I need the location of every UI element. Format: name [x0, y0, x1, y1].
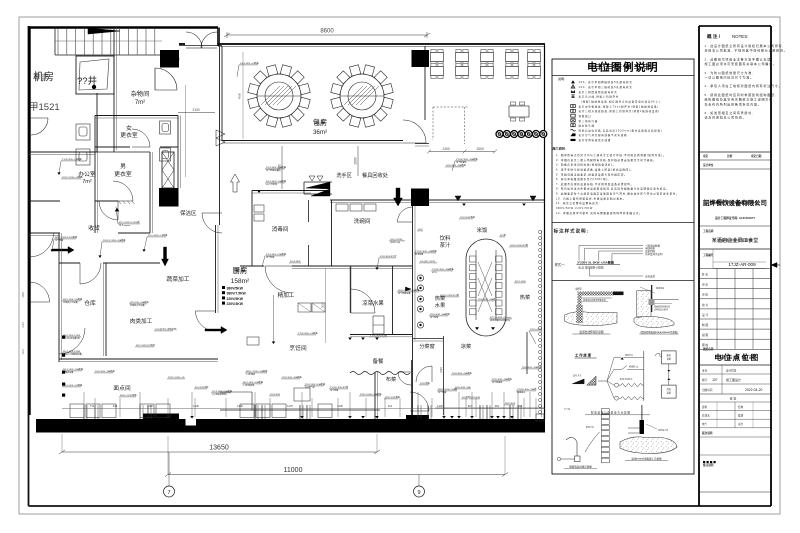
svg-text:(预留1轴线栈设备,相应器件点位设备需电位核实86上): (预留1轴线栈设备,相应器件点位设备需电位核实86上) [581, 99, 660, 103]
door arc 包房 [403, 120, 426, 143]
entrance double door [186, 32, 202, 48]
door arc 机房 [31, 118, 48, 135]
legend section divider 2 [552, 280, 694, 282]
svg-text:底部出线预埋示意图: 底部出线预埋示意图 [579, 330, 603, 334]
hollow arrow up [231, 174, 240, 192]
band raised block B [406, 415, 429, 420]
leader line x273 [273, 295, 275, 342]
svg-text:8600: 8600 [320, 29, 334, 35]
annotation cluster [439, 293, 459, 297]
svg-text:9. 此图要求每个功能区电器另设备用电空气开关,图中共分区气: 9. 此图要求每个功能区电器另设备用电空气开关,图中共分区气开关以管区更多参考。 [556, 192, 679, 196]
axis bubble 7 [168, 452, 170, 486]
svg-text:6. 如发现相互之间有矛盾处,: 6. 如发现相互之间有矛盾处, [705, 110, 754, 115]
svg-text:餐具回收处: 餐具回收处 [362, 171, 388, 179]
dimension 3000 vertical [281, 146, 283, 189]
annotation cluster [129, 300, 149, 307]
annotation cluster [509, 243, 528, 247]
svg-text:4. 承包人须在工地核对图纸内所有标注尺寸。: 4. 承包人须在工地核对图纸内所有标注尺寸。 [705, 83, 783, 88]
svg-text:表示常用电线需走线槽: 表示常用电线需走线槽 [579, 138, 612, 142]
legend symbol row [571, 129, 576, 131]
equipment rect 凉菜水果 [373, 316, 384, 334]
dashed L dining [432, 107, 434, 140]
annotation cluster [211, 389, 233, 396]
svg-text:2100: 2100 [192, 108, 199, 112]
legend symbol row [571, 119, 575, 122]
wall 消毒间 south y266 [240, 265, 264, 267]
annotation cluster [529, 329, 542, 344]
dining table A1 [431, 49, 444, 64]
svg-text:施工说明:: 施工说明: [553, 146, 566, 151]
annotation cluster [414, 249, 437, 256]
svg-text:消毒间: 消毒间 [272, 225, 289, 233]
wall 凉菜水果 west x350 [350, 266, 352, 313]
stair hatch [88, 28, 120, 34]
svg-text:4. 现于布防与标准要求做,设备上所架(标高设施回)。: 4. 现于布防与标准要求做,设备上所架(标高设施回)。 [556, 167, 634, 171]
annotation cluster [265, 179, 287, 186]
annotation cluster [431, 267, 454, 274]
dining table B2 [456, 63, 469, 78]
dining table A5 [528, 49, 541, 64]
svg-text:烹饪间: 烹饪间 [289, 344, 307, 352]
svg-text:380V/5KW 220V/5KW: 380V/5KW 220V/5KW [556, 206, 593, 210]
leader triangles mid [348, 337, 352, 340]
door arc west wall lower [30, 282, 50, 302]
wall 仓库 [59, 262, 80, 264]
band raised block A [143, 414, 179, 420]
wall east service x413 [412, 206, 414, 415]
svg-text:肉类加工: 肉类加工 [130, 317, 153, 325]
legend symbol row [571, 105, 576, 108]
duct shaft with X bracing [162, 152, 174, 188]
svg-text:机房: 机房 [33, 70, 54, 83]
door arc west wall 收货 [30, 233, 54, 257]
svg-text:图纸名称: 图纸名称 [703, 347, 714, 351]
svg-text:1. 此设计图纸之所有设计版权归属本公司所有,: 1. 此设计图纸之所有设计版权归属本公司所有, [705, 43, 785, 48]
dashed partition dining [432, 107, 434, 140]
svg-text:建筑: 建筑 [702, 405, 708, 409]
annotation cluster [62, 297, 83, 304]
round table 1 with 12 chairs [248, 65, 310, 127]
column top-right [412, 50, 430, 67]
dining table B5 [528, 63, 541, 78]
dimension 8600 top [227, 34, 427, 36]
wall 消毒间 west [251, 191, 253, 267]
svg-text:11. 标注点位置布设置标高为:: 11. 标注点位置布设置标高为: [556, 201, 600, 205]
dashed partition x464 [464, 107, 466, 144]
axis bubble 9 [418, 475, 420, 487]
svg-text:备注说明: 备注说明 [702, 463, 714, 467]
annotation cluster [489, 317, 512, 322]
extra leader verticals [94, 398, 96, 417]
svg-text:洗手区: 洗手区 [336, 171, 352, 179]
annotation cluster [62, 335, 81, 340]
counter L 烹饪间 [220, 391, 252, 393]
svg-text:男: 男 [120, 163, 126, 170]
legend symbol row [571, 97, 575, 99]
svg-text:2140: 2140 [22, 322, 25, 328]
svg-text:杂物间: 杂物间 [131, 90, 150, 98]
svg-text:请及时通知本公司协调。: 请及时通知本公司协调。 [705, 115, 747, 120]
equipment point [62, 371, 65, 374]
svg-text:36m²: 36m² [313, 129, 327, 136]
svg-text:更衣室: 更衣室 [120, 131, 138, 139]
annotation cluster [384, 395, 401, 399]
wall 面点间 north [59, 358, 218, 360]
svg-text:面点间: 面点间 [113, 384, 131, 392]
equipment point [62, 354, 65, 357]
power note rows [222, 286, 225, 289]
dim vertical 精加工 [325, 268, 327, 343]
svg-text:结构: 结构 [738, 405, 744, 409]
svg-text:暖通: 暖通 [738, 414, 744, 418]
equipment box right [536, 414, 544, 421]
svg-text:13650: 13650 [209, 445, 229, 452]
svg-text:校 对: 校 对 [702, 303, 708, 307]
svg-text:表示中单相线盒,预留上They制开关(预留1轴线栈设备): 表示中单相线盒,预留上They制开关(预留1轴线栈设备) [579, 104, 659, 108]
annotation cluster [304, 382, 326, 389]
svg-text:工程名称: 工程名称 [703, 229, 714, 233]
annotation cluster [452, 157, 478, 171]
legend symbol row [571, 85, 575, 88]
door arc 男更衣室 [113, 181, 133, 201]
svg-text:8. 所有如何当为布置中设备用电情况,其实际布线数量与各品牌: 8. 所有如何当为布置中设备用电情况,其实际布线数量与各品牌供应商为标定。 [556, 187, 669, 191]
annotation cluster [142, 233, 168, 252]
column mid-right [411, 189, 429, 207]
svg-text:1210: 1210 [22, 349, 25, 355]
wall corridor [149, 152, 151, 233]
svg-text:1400: 1400 [237, 404, 243, 408]
svg-text:表示三相四线暗装配电开关: 表示三相四线暗装配电开关 [579, 90, 618, 94]
small arrow at 收货 [115, 208, 120, 211]
entrance sill [179, 45, 222, 47]
svg-text:12. 本图仅供学习参考,实际布置图据现场地坪样准确认定。: 12. 本图仅供学习参考,实际布置图据现场地坪样准确认定。 [556, 211, 642, 215]
legend section divider 1 [552, 222, 694, 224]
dim extension lines [61, 434, 63, 452]
svg-text:9: 9 [417, 490, 420, 496]
svg-text:设计阶段: 设计阶段 [726, 369, 737, 373]
svg-text:7: 7 [167, 490, 170, 496]
equipment point [62, 383, 65, 386]
svg-text:甲1521: 甲1521 [29, 102, 60, 113]
svg-text:2022-04-20: 2022-04-20 [745, 388, 762, 392]
svg-text:电位图例说明: 电位图例说明 [587, 61, 659, 74]
legend symbol row [571, 133, 576, 136]
dining table B1 [431, 63, 444, 78]
annotation cluster [359, 392, 382, 396]
annotation cluster [461, 395, 470, 399]
annotation cluster [242, 380, 264, 387]
svg-text:设计单位: 设计单位 [703, 163, 714, 167]
wall 凉菜水果 east x392 [392, 266, 394, 335]
schematic bus line [643, 351, 645, 401]
svg-text:17JZ-AR-009: 17JZ-AR-009 [728, 262, 756, 267]
svg-text:说明:: 说明: [558, 76, 565, 81]
door arcs 布菜 [398, 372, 411, 385]
svg-text:913: 913 [518, 404, 523, 408]
door arc 消毒间-精加工 [265, 266, 292, 293]
corridor wall x219 [219, 28, 221, 226]
annotation cluster [237, 61, 259, 77]
annotation cluster [281, 375, 303, 379]
svg-text:暗装暗埋出线предложено示意图: 暗装暗埋出线предложено示意图 [641, 330, 678, 334]
svg-text:1190: 1190 [147, 404, 153, 408]
room 包房 walls [221, 46, 223, 141]
svg-text:1500: 1500 [476, 147, 484, 151]
wall: building west [28, 27, 30, 415]
door arc 仓库 [80, 263, 101, 284]
svg-text:布菜: 布菜 [386, 375, 396, 383]
svg-text:481: 481 [495, 404, 500, 408]
sill at 包房 door end [415, 143, 429, 145]
svg-text:10. 白线上面布预留装修,生意设留来制以基本。: 10. 白线上面布预留装修,生意设留来制以基本。 [556, 196, 626, 200]
svg-text:J07: J07 [712, 378, 718, 382]
svg-text:6. 原功率电量请用于另行(50F/项)。: 6. 原功率电量请用于另行(50F/项)。 [556, 177, 611, 181]
svg-text:姓 名: 姓 名 [702, 273, 708, 277]
door arc service [398, 207, 413, 222]
svg-text:描 图: 描 图 [702, 333, 708, 337]
annotation cluster [389, 239, 405, 244]
detail D2: wall outlet embedding [634, 285, 679, 334]
annotation cluster [504, 403, 515, 405]
svg-text:工 作 原 理: 工 作 原 理 [575, 353, 592, 358]
svg-text:概 注 /: 概 注 / [707, 33, 721, 40]
annotation cluster [119, 393, 137, 397]
annotation cluster [245, 369, 268, 376]
counter 洗手区 [304, 181, 332, 183]
annotation cluster [499, 233, 506, 237]
svg-text:2. 本图仅表示三相入场配供电系统,保护线必须安装相关大尺寸: 2. 本图仅表示三相入场配供电系统,保护线必须安装相关大尺寸规格。 [556, 158, 657, 162]
detail D3: working principle schematic [572, 351, 676, 415]
annotation cluster [94, 369, 116, 373]
detail D1: floor outlet embedding [564, 287, 623, 335]
svg-text:设计工程师证号码: A131504577: 设计工程师证号码: A131504577 [715, 216, 756, 220]
svg-text:审 定: 审 定 [702, 283, 708, 287]
detail D4: wall conduit elevation [557, 407, 609, 469]
dining table C1 [509, 102, 529, 121]
svg-text:2000: 2000 [354, 157, 358, 164]
annotation cluster [469, 397, 480, 399]
svg-text:米饭: 米饭 [477, 226, 488, 234]
svg-text:会 签: 会 签 [730, 396, 737, 401]
wall: east [544, 44, 546, 420]
svg-text:电气: 电气 [702, 422, 708, 426]
annotation cluster [57, 157, 82, 175]
dashed line kitchen corridor [251, 215, 253, 268]
annotation cluster [262, 252, 287, 267]
svg-text:风机启动电控箱,安装高度1500mm(相关设备供应商提供): 风机启动电控箱,安装高度1500mm(相关设备供应商提供) [579, 128, 663, 132]
door arc storeroom SW [59, 328, 85, 354]
dimension 11000 [168, 474, 505, 476]
svg-text:图号: 图号 [702, 378, 708, 382]
svg-text:16A, 表示单相两极暗装5孔配电开关: 16A, 表示单相两极暗装5孔配电开关 [579, 80, 633, 84]
svg-text:比例: 比例 [727, 154, 733, 158]
annotation cluster [451, 371, 473, 375]
column top-left [160, 50, 179, 68]
equipment point [62, 394, 65, 397]
title block top edge [699, 25, 771, 27]
annotation cluster [98, 238, 126, 258]
svg-text:4500: 4500 [238, 92, 242, 99]
annotation cluster [369, 333, 387, 337]
svg-text:3. 隐蔽应审查自检验收(按规格要求好)。: 3. 隐蔽应审查自检验收(按规格要求好)。 [556, 163, 616, 167]
dining table B4 [506, 63, 519, 78]
annotation cluster [429, 312, 451, 319]
round table 2 with 12 chairs [331, 65, 393, 127]
svg-text:样式一:: 样式一: [555, 262, 566, 267]
detail D5: grounding construction [620, 405, 677, 461]
svg-text:2*220V 5L 5KW +20A断路: 2*220V 5L 5KW +20A断路 [577, 260, 615, 265]
svg-text:预留线口: 预留线口 [579, 114, 592, 118]
svg-text:审定日期: 审定日期 [751, 154, 762, 158]
arrow pass [205, 327, 227, 334]
dimension 2000 vertical [357, 146, 359, 176]
svg-text:11000: 11000 [284, 467, 303, 474]
svg-text:凉菜水果: 凉菜水果 [362, 299, 384, 307]
dining table A2 [456, 49, 469, 64]
svg-text:凉菜: 凉菜 [461, 342, 471, 350]
svg-text:接地extend电极施工示意图: 接地extend电极施工示意图 [631, 457, 662, 461]
stairwell [54, 27, 56, 55]
black arrow down right [394, 188, 403, 206]
svg-text:1430: 1430 [193, 404, 199, 408]
annotation cluster [419, 381, 431, 385]
black wedge sink counter [311, 189, 330, 196]
annotation cluster [265, 165, 287, 172]
wall: north left [28, 26, 218, 28]
svg-text:审 核: 审 核 [702, 293, 708, 297]
sink island 精加工 [298, 303, 311, 312]
svg-text:5. 等线范围走线要求,按要求设置专项布线区间。: 5. 等线范围走线要求,按要求设置专项布线区间。 [556, 172, 627, 176]
column (filled) [159, 188, 179, 207]
svg-text:16A, 表示单相三极暗装5孔配电开关: 16A, 表示单相三极暗装5孔配电开关 [579, 85, 633, 89]
equipment point [62, 336, 65, 339]
svg-text:711: 711 [90, 404, 95, 408]
svg-text:配 电 设 备 与 电 缆 接 合 示 意 图: 配 电 设 备 与 电 缆 接 合 示 意 图 [591, 411, 630, 415]
annotation cluster [437, 387, 457, 394]
svg-text:3181: 3181 [439, 367, 443, 373]
double tri sinks 洗碗间 [455, 196, 461, 201]
svg-text:表示空气开关配电线器平式布线箱: 表示空气开关配电线器平式布线箱 [579, 133, 628, 137]
svg-text:标注样式说明:: 标注样式说明: [553, 228, 590, 235]
svg-text:220V/5KW: 220V/5KW [227, 297, 244, 301]
annotation cluster [417, 229, 423, 231]
annotation cluster [516, 387, 536, 394]
dim 4500 vertical in 包房 [242, 52, 244, 139]
svg-text:1. 图中所标点位尺寸均与土建尺寸之进行复核,不可按比例测量: 1. 图中所标点位尺寸均与土建尺寸之进行复核,不可按比例测量(现场为准)。 [556, 153, 666, 157]
svg-text:蔬菜加工: 蔬菜加工 [166, 275, 189, 283]
shaft dot [92, 85, 96, 89]
annotation cluster [297, 331, 318, 335]
svg-text:保洁区: 保洁区 [180, 209, 197, 217]
wall 洗碗间 north [330, 199, 545, 201]
arrow receive [52, 247, 74, 254]
annotation cluster [62, 367, 84, 374]
svg-text:工程编号: 工程编号 [703, 253, 714, 257]
svg-text:440: 440 [113, 404, 118, 408]
svg-text:饮料: 饮料 [440, 234, 451, 242]
svg-text:动力: 动力 [738, 422, 744, 426]
annotation cluster [397, 288, 420, 295]
wall 消毒间 north [252, 190, 330, 192]
svg-text:1400: 1400 [442, 147, 450, 151]
svg-text:版次说明: 版次说明 [702, 431, 713, 435]
svg-text:专业: 专业 [702, 369, 708, 373]
threshold hatch 保洁区 [118, 201, 121, 205]
annotation cluster [62, 383, 83, 387]
annotation cluster [491, 377, 513, 384]
svg-text:220V 3KW +20A: 220V 3KW +20A [455, 386, 471, 389]
svg-text:墙面暗装出线示意图: 墙面暗装出线示意图 [569, 465, 592, 469]
svg-text:及合约内所列出的各项条款内容。: 及合约内所列出的各项条款内容。 [705, 101, 762, 106]
svg-text:审定: 审定 [703, 154, 709, 158]
svg-text:380V/5KW: 380V/5KW [227, 287, 244, 291]
svg-text:设 计: 设 计 [702, 313, 708, 317]
fixture rect 烹饪间 floor [294, 388, 310, 401]
svg-text:一切以图纸内标注尺寸为准。: 一切以图纸内标注尺寸为准。 [705, 75, 754, 80]
annotation cluster [477, 297, 496, 301]
disinfect room rects [254, 205, 264, 212]
annotation cluster [62, 351, 83, 356]
annotation cluster [459, 215, 476, 219]
svg-text:第三角轮冷器: 第三角轮冷器 [579, 119, 599, 123]
svg-text:结构图纸及其它有关图纸与施工说明文件,: 结构图纸及其它有关图纸与施工说明文件, [705, 97, 775, 102]
lockers 更衣室 [160, 121, 171, 134]
svg-text:水果: 水果 [435, 301, 445, 309]
svg-text:1530: 1530 [22, 292, 25, 298]
legend panel border [552, 59, 694, 474]
east wall dotted hatch [539, 231, 542, 234]
annotation cluster [329, 385, 348, 392]
equipment boxes on band left [70, 404, 84, 418]
annotation cluster [135, 343, 155, 347]
wall between 蔬菜加工 and 厨房 [215, 225, 217, 313]
svg-text:磁力轮冷器: 磁力轮冷器 [579, 124, 595, 128]
wall segment right of entrance [217, 28, 219, 47]
vertical leader lines bottom [83, 392, 85, 417]
svg-text:收货: 收货 [88, 224, 100, 232]
legend symbol row [571, 109, 576, 112]
legend symbol row [571, 124, 575, 127]
svg-text:214: 214 [388, 404, 393, 408]
svg-text:380V/7.5KW: 380V/7.5KW [227, 292, 247, 296]
svg-text:更衣室: 更衣室 [114, 170, 132, 178]
svg-text:施工图必须许可安装图有关联本公司确认。: 施工图必须许可安装图有关联本公司确认。 [705, 61, 777, 66]
svg-text:220V/3KW: 220V/3KW [227, 302, 244, 306]
dimension 13650 [62, 451, 377, 453]
svg-text:NOTES:: NOTES: [732, 34, 748, 39]
annotation cluster [419, 261, 437, 263]
door arc 女更衣室 [132, 129, 150, 147]
room: 机房 walls [113, 27, 115, 152]
shaft ??井 [76, 56, 114, 94]
annotation cluster [454, 386, 471, 389]
equipment ticks on band [83, 405, 85, 419]
dim line corridor x185 [184, 85, 186, 177]
svg-text:制 图: 制 图 [702, 323, 708, 327]
drawing number row [699, 248, 771, 250]
svg-text:7m²: 7m² [82, 179, 92, 185]
svg-text:(标高 电线规格小样图): (标高 电线规格小样图) [578, 266, 604, 270]
svg-text:4P29: 4P29 [432, 272, 438, 274]
annotation cluster [521, 365, 543, 369]
svg-text:1470: 1470 [287, 404, 293, 408]
wedges near service wall [405, 287, 411, 291]
svg-text:7. 此图不应理其设备布线,不含管材及设备必须现场。: 7. 此图不应理其设备布线,不含管材及设备必须现场。 [556, 182, 634, 186]
inner frame bottom [29, 505, 772, 507]
svg-text:未得本公司批准, 不得将其中任何部分全部模仿。: 未得本公司批准, 不得将其中任何部分全部模仿。 [705, 48, 788, 53]
wall 女更衣室 [95, 115, 178, 117]
door arc 保洁区 [202, 213, 222, 233]
